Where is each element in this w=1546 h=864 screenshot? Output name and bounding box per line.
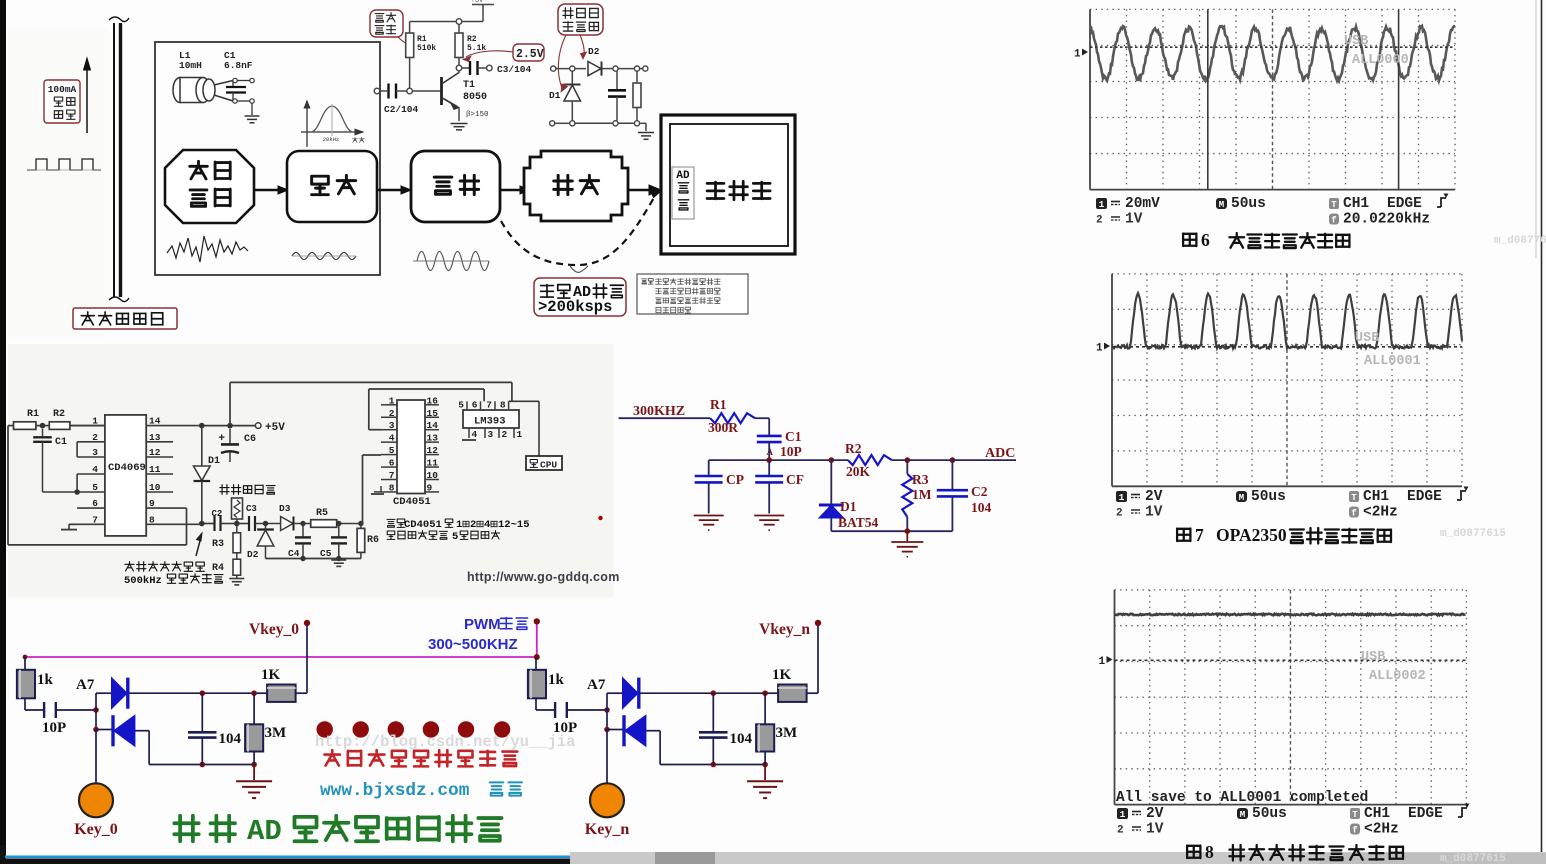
svg-text:300~500KHZ: 300~500KHZ	[428, 636, 518, 653]
resistor R3 osc	[212, 524, 241, 553]
label C3/104	[497, 64, 532, 75]
wire +5V riser to top rail	[230, 382, 512, 425]
node spring R3 junction	[231, 521, 243, 527]
svg-text:12~15: 12~15	[498, 519, 530, 531]
scope3 flat waveform	[1115, 614, 1466, 616]
node gnd junction (Key_0)	[251, 762, 257, 768]
outer box signal chain	[155, 42, 380, 275]
block AD convert	[672, 167, 694, 219]
block MCU outer	[661, 115, 795, 254]
arrow sensing to bandpass	[254, 186, 288, 194]
svg-text:T: T	[1331, 200, 1337, 210]
up arrow current direction	[84, 58, 91, 133]
scope3 grid	[1115, 590, 1467, 805]
capacitor C1 resonant	[226, 78, 254, 115]
svg-text:1V: 1V	[1146, 822, 1164, 838]
svg-text:BAT54: BAT54	[838, 515, 879, 530]
scope3 readout	[1117, 804, 1470, 838]
resistor R1 510k	[406, 33, 414, 58]
svg-text:R3: R3	[212, 539, 224, 550]
svg-text:R2: R2	[845, 441, 862, 456]
svg-text:f: f	[1331, 216, 1336, 226]
svg-text:9: 9	[427, 482, 433, 493]
node D1 top junction	[829, 457, 835, 463]
bottom gray bar	[570, 852, 1546, 864]
svg-text:2: 2	[1096, 215, 1103, 227]
wire emitter to ground	[458, 108, 460, 122]
scope3 usb label	[1361, 650, 1426, 684]
stray red dot	[598, 516, 602, 520]
svg-text:11: 11	[149, 464, 161, 475]
scope1 usb label	[1344, 34, 1409, 68]
svg-text:D1: D1	[840, 499, 857, 514]
capacitor 10P (Key_n)	[553, 702, 577, 736]
svg-text:1: 1	[389, 395, 395, 406]
svg-text:1k: 1k	[548, 672, 565, 688]
svg-text:AD: AD	[676, 170, 690, 182]
svg-text:m_d0877615: m_d0877615	[1440, 528, 1506, 540]
wire lower diode (Key_0)	[96, 730, 254, 765]
wire to ADC	[952, 446, 1016, 461]
scope1 ch1 marker	[1074, 49, 1088, 61]
wire to key pad (Key_n)	[606, 730, 608, 784]
resistor R1 filter	[708, 397, 755, 435]
node 104 bottom (Key_n)	[711, 762, 717, 768]
resistor 1k (Key_n)	[528, 670, 565, 699]
capacitor C6 electrolytic	[218, 429, 256, 462]
title use AD touch keys	[174, 815, 501, 848]
capacitor CF	[755, 460, 804, 513]
label R1 510k	[417, 35, 436, 53]
note box direct waveform	[637, 274, 748, 314]
svg-text:+3V: +3V	[471, 0, 484, 5]
label MCU	[707, 181, 770, 199]
label A7 (Key_0)	[76, 677, 95, 693]
svg-text:3: 3	[92, 447, 98, 458]
ground filter	[891, 531, 923, 557]
note arrow square wave point	[196, 533, 202, 556]
svg-text:300R: 300R	[708, 420, 738, 435]
resistor R2 filter	[831, 441, 892, 479]
node Vkey dot (Key_n)	[815, 620, 821, 626]
terminal circles top rail	[551, 66, 648, 71]
svg-text:C1: C1	[785, 429, 802, 444]
svg-text:USB: USB	[1361, 650, 1385, 665]
svg-text:M: M	[1240, 810, 1245, 820]
svg-text:C1: C1	[55, 437, 67, 448]
wire supply rail	[410, 21, 483, 23]
label CD4051	[393, 496, 431, 508]
wire to upper diode (Key_0)	[96, 692, 112, 694]
scope2 pulse waveform	[1112, 293, 1462, 348]
callout needs adjustment	[370, 10, 408, 44]
label square wave note	[124, 562, 223, 587]
svg-text:1: 1	[517, 429, 523, 440]
svg-text:CPU: CPU	[540, 460, 557, 471]
CD4051 left pins 1-8	[381, 395, 397, 493]
label PWM signal	[428, 616, 528, 653]
callout direct AD sampling >200ksps	[534, 278, 626, 316]
resistor R3 filter	[902, 460, 931, 531]
svg-text:100mA: 100mA	[48, 84, 77, 95]
label A7 (Key_n)	[587, 677, 606, 693]
CD4069 right pins 14-8	[146, 416, 202, 526]
svg-text:8: 8	[1205, 842, 1214, 862]
diode D1	[549, 71, 581, 121]
ground bottom rail osc	[331, 560, 346, 566]
svg-text:50us: 50us	[1252, 806, 1287, 822]
label key name (Key_0)	[74, 821, 118, 838]
node lower (Key_0)	[93, 727, 99, 733]
node C3 D2 junction	[258, 521, 281, 526]
svg-text:6: 6	[472, 400, 478, 411]
svg-text:2V: 2V	[1145, 489, 1163, 505]
diode D1 osc	[194, 426, 221, 524]
svg-text:R1: R1	[710, 397, 727, 412]
wire base	[412, 90, 441, 92]
node 3M top (Key_n)	[762, 690, 768, 696]
label key name (Key_n)	[585, 821, 630, 838]
wire pin8 bus	[202, 523, 214, 525]
svg-text:D2: D2	[588, 46, 600, 57]
svg-text:1: 1	[456, 519, 462, 531]
svg-text:D2: D2	[247, 549, 259, 560]
svg-text:EDGE: EDGE	[1408, 806, 1443, 822]
wire R1 bottom to base node	[409, 58, 411, 92]
svg-text:1: 1	[1096, 343, 1103, 355]
capacitor C1 filter	[757, 429, 802, 459]
svg-text:CH1: CH1	[1343, 196, 1369, 212]
svg-text:1: 1	[92, 416, 98, 427]
scope2 readout	[1116, 487, 1469, 521]
scope1 trigger level dotted	[1090, 46, 1455, 48]
capacitor 104 (Key_n)	[699, 693, 753, 764]
node supply circle	[456, 19, 462, 25]
diode D3 osc	[279, 503, 294, 531]
IC CD4051 body	[397, 400, 425, 494]
watermark right top	[1494, 235, 1546, 247]
wire bottom rail schottky	[555, 122, 635, 124]
scope1 cursor line a	[1207, 9, 1209, 189]
node A junction	[766, 457, 772, 463]
brace to bubble	[570, 266, 588, 272]
svg-text:10P: 10P	[780, 444, 802, 459]
svg-text:CH1: CH1	[1364, 806, 1390, 822]
terminal +5V circle	[255, 422, 285, 434]
svg-text:β>150: β>150	[466, 111, 489, 119]
svg-text:R6: R6	[367, 535, 379, 546]
svg-text:4: 4	[389, 433, 395, 444]
label box track center line	[73, 308, 177, 329]
svg-text:3: 3	[389, 420, 395, 431]
wire to upper diode (Key_n)	[607, 692, 623, 694]
left page edge bar	[0, 0, 6, 864]
svg-text:+: +	[218, 433, 225, 445]
svg-text:500kHz: 500kHz	[124, 575, 162, 587]
wire lower diode (Key_n)	[607, 730, 765, 765]
capacitor C3/104	[462, 61, 492, 75]
svg-text:5: 5	[452, 531, 458, 543]
svg-text:C3: C3	[246, 504, 257, 514]
svg-text:8050: 8050	[463, 92, 487, 103]
wire 1k to 10P (Key_n)	[536, 698, 555, 710]
block band select rounded	[287, 151, 377, 222]
svg-text:R1: R1	[417, 35, 427, 44]
svg-text:6.8nF: 6.8nF	[224, 60, 253, 71]
callout 2.5V	[463, 44, 544, 62]
scan tint mid-left	[8, 28, 614, 598]
svg-text:ADC: ADC	[985, 446, 1015, 461]
svg-text:C3/104: C3/104	[497, 64, 532, 75]
wire D3 to R5	[294, 521, 311, 526]
scope1 cursor line b	[1398, 9, 1400, 189]
svg-text:104: 104	[219, 731, 242, 747]
ground T1 emitter	[451, 124, 468, 130]
node D1 top	[199, 423, 205, 429]
scope1 grid	[1090, 9, 1455, 189]
waveform sketch noise	[167, 236, 248, 262]
svg-text:7: 7	[92, 514, 98, 525]
label T1 8050	[463, 80, 487, 103]
svg-text:6: 6	[1201, 230, 1210, 250]
label beta>150	[466, 111, 489, 119]
svg-text:1: 1	[1099, 656, 1106, 668]
wire C2 input	[380, 90, 387, 92]
bottom blue line	[5, 855, 570, 858]
svg-text:1: 1	[1120, 809, 1126, 820]
svg-text:LM393: LM393	[474, 416, 506, 428]
scope3 ch1 marker	[1099, 656, 1113, 668]
svg-text:2: 2	[1117, 825, 1124, 837]
svg-text:12: 12	[149, 447, 161, 458]
svg-text:7: 7	[486, 400, 492, 411]
wire filter bottom bus	[831, 530, 952, 532]
svg-text:10: 10	[427, 470, 439, 481]
svg-text:20.0220kHz: 20.0220kHz	[1343, 212, 1430, 228]
box to CPU	[526, 456, 562, 471]
wire to ground schottky	[640, 123, 646, 131]
svg-text:6: 6	[92, 498, 98, 509]
capacitor C5	[320, 524, 347, 560]
ground stub CD4051 pin8	[371, 486, 384, 494]
dashed arc direct AD sampling	[501, 190, 661, 266]
waveform sketch amplified sine	[413, 252, 489, 271]
svg-text:Key_n: Key_n	[585, 821, 630, 838]
wire 1k to 10P (Key_0)	[25, 698, 44, 710]
block magnetic sensing octagon	[165, 150, 254, 223]
track double line	[109, 17, 129, 302]
svg-text:20mV: 20mV	[1125, 196, 1160, 212]
svg-text:104: 104	[730, 731, 753, 747]
svg-text:5: 5	[92, 482, 98, 493]
scope3 reference dotted	[1115, 659, 1467, 661]
wire node to CD4051 pin5	[361, 455, 381, 524]
caption fig8	[1187, 842, 1403, 862]
svg-text:1V: 1V	[1125, 212, 1143, 228]
wire mid bus	[709, 459, 832, 461]
wire R1 top	[409, 22, 411, 34]
resistor R5	[311, 508, 337, 527]
resistor 3M (Key_0)	[245, 693, 286, 764]
node PWM left end	[23, 655, 28, 660]
resistor 1K horizontal (Key_0)	[261, 667, 296, 702]
node C2 top	[950, 457, 956, 463]
scope3 save message	[1116, 790, 1368, 806]
svg-text:>200ksps: >200ksps	[538, 298, 612, 316]
svg-text:EDGE: EDGE	[1387, 196, 1422, 212]
wire LM393 pin8 to CPU	[509, 401, 539, 456]
svg-text:C5: C5	[320, 548, 332, 559]
note CD4051 pins	[387, 519, 530, 543]
scope2 ch1 marker	[1096, 343, 1110, 355]
diode D1 BAT54	[819, 460, 879, 531]
wire node riser (Key_n)	[606, 693, 608, 729]
red dots repeated units	[317, 721, 511, 737]
diode down branch (Key_n)	[624, 715, 646, 746]
label spring touch key	[220, 485, 275, 495]
scope2 trigger level dotted	[1112, 346, 1462, 348]
svg-text:3: 3	[488, 429, 494, 440]
svg-text:14: 14	[149, 416, 161, 427]
svg-text:5: 5	[389, 445, 395, 456]
svg-text:CP: CP	[726, 472, 744, 487]
wire R5 to node	[336, 521, 364, 526]
block amplify rounded	[411, 151, 500, 222]
wire top rail schottky	[556, 68, 644, 70]
svg-text:2: 2	[502, 429, 508, 440]
block MCU inner	[670, 124, 788, 246]
label 300KHZ	[633, 404, 685, 419]
transistor T1 8050	[442, 73, 460, 110]
wire 10P to node (Key_0)	[56, 709, 96, 711]
svg-text:2.5V: 2.5V	[516, 48, 544, 61]
diode up branch (Key_0)	[112, 678, 128, 709]
svg-text:m_d0877615: m_d0877615	[1440, 853, 1506, 864]
ground touch unit (Key_0)	[236, 765, 272, 799]
node R1 R2 junction	[36, 423, 49, 429]
svg-text:C6: C6	[244, 434, 256, 445]
block detect plaque	[524, 151, 628, 221]
svg-text:C4: C4	[288, 548, 300, 559]
watermark csdn blog	[315, 733, 575, 751]
wire 10P to node (Key_n)	[567, 709, 607, 711]
ground of C1	[245, 116, 260, 123]
bottom black bar	[0, 845, 570, 864]
node PWM junction unit n	[534, 654, 540, 660]
svg-text:2: 2	[470, 519, 476, 531]
wire upper row (Key_n)	[641, 692, 779, 694]
svg-text:1M: 1M	[912, 487, 932, 502]
svg-text:CF: CF	[786, 472, 804, 487]
svg-text:3M: 3M	[265, 725, 287, 741]
svg-text:R4: R4	[212, 563, 224, 574]
bandpass response sketch	[301, 101, 364, 147]
svg-text:20K: 20K	[846, 464, 871, 479]
capacitor filter schottky	[608, 71, 626, 121]
svg-text:7: 7	[1195, 525, 1204, 545]
svg-text:Vkey_n: Vkey_n	[759, 621, 810, 638]
capacitor C2/104	[389, 84, 407, 99]
svg-text:1: 1	[1099, 199, 1105, 210]
svg-text:http://www.go-gddq.com: http://www.go-gddq.com	[467, 570, 620, 584]
svg-text:f: f	[1351, 509, 1356, 519]
diode down branch (Key_0)	[113, 715, 135, 746]
ground schottky	[638, 133, 654, 140]
IC LM393 body	[463, 410, 519, 428]
svg-text:1V: 1V	[1145, 505, 1163, 521]
url go-gddq	[467, 570, 620, 584]
wire loop R1 left	[8, 426, 187, 545]
arrow bandpass to amplify	[377, 186, 411, 194]
label L1 10mH	[179, 50, 202, 71]
svg-text:50us: 50us	[1251, 489, 1286, 505]
capacitor C2 osc	[212, 509, 232, 531]
svg-text:D1: D1	[208, 456, 220, 467]
CD4069 left pins 1-7	[69, 416, 105, 526]
svg-text:4: 4	[472, 429, 478, 440]
scope2 usb label	[1355, 331, 1421, 369]
wire R2 to pin1	[70, 425, 105, 427]
caption fig6	[1183, 230, 1349, 250]
ground stub pin7	[61, 524, 77, 529]
svg-text:50us: 50us	[1231, 196, 1266, 212]
wire 1k to PWM line (Key_0)	[24, 657, 26, 670]
label box 100mA AC current	[44, 80, 80, 123]
svg-text:1k: 1k	[37, 672, 54, 688]
svg-text:R2: R2	[467, 35, 477, 44]
svg-text:PWM: PWM	[464, 616, 501, 633]
svg-text:ALL0002: ALL0002	[1369, 669, 1426, 684]
node pin8 D1 junction	[199, 521, 205, 527]
capacitor C3 osc	[243, 504, 258, 531]
svg-text:Key_0: Key_0	[74, 821, 118, 838]
svg-text:USB: USB	[1344, 34, 1368, 49]
capacitor C2 filter	[937, 460, 992, 531]
right page edge line	[1541, 0, 1543, 864]
svg-text:A7: A7	[587, 677, 606, 693]
svg-text:ALL0000: ALL0000	[1352, 53, 1409, 68]
svg-text:D1: D1	[549, 90, 561, 101]
label any number of identical units	[324, 750, 517, 766]
svg-text:CD4069: CD4069	[108, 462, 146, 474]
label bjxsdz url	[320, 781, 522, 801]
node 104 top (Key_n)	[711, 690, 717, 696]
scope1 sine waveform	[1090, 26, 1455, 81]
resistor 3M (Key_n)	[756, 693, 797, 764]
label Vkey_0	[249, 621, 299, 638]
svg-text:www.bjxsdz.com: www.bjxsdz.com	[320, 781, 470, 801]
resistor R2 5.1k	[455, 33, 463, 58]
resistor R1 osc	[14, 409, 40, 429]
svg-text:10mH: 10mH	[179, 60, 202, 71]
LM393 bottom pins 4-1	[469, 428, 523, 440]
node Vkey dot (Key_0)	[304, 620, 310, 626]
node filter ground junction	[905, 528, 911, 534]
svg-text:8: 8	[389, 482, 395, 493]
wire 1K to Vkey (Key_n)	[807, 623, 818, 693]
svg-text:m_d0877615: m_d0877615	[1494, 235, 1546, 247]
callout schottky diode	[558, 4, 603, 92]
diode up branch (Key_n)	[623, 678, 639, 709]
ground R4	[229, 579, 244, 585]
svg-text:AD: AD	[247, 815, 282, 848]
capacitor 10P (Key_0)	[42, 702, 66, 736]
node 3M top (Key_0)	[251, 690, 257, 696]
svg-text:D3: D3	[279, 503, 291, 514]
wire bottom rail osc	[266, 556, 361, 561]
svg-text:R2: R2	[53, 409, 65, 420]
wire pin14 to +5V	[202, 425, 256, 427]
